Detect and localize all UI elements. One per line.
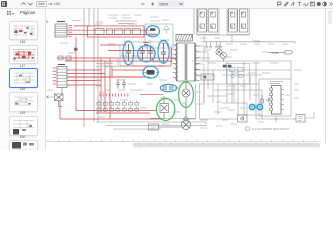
transformer T802 [197, 8, 220, 34]
annotation ellipse (blue) around C810 [123, 41, 134, 65]
label FS801 fuse text [115, 21, 137, 24]
annotation ellipse (blue) around C813/C814 [138, 46, 156, 62]
wire standby primary drop [193, 8, 195, 35]
transistor Q801 (in green mark) [182, 81, 190, 107]
transformer T803 [209, 9, 218, 32]
thermistor TH801 [181, 107, 190, 129]
resistor array R811-R818 [97, 101, 139, 112]
label text rows (top filter area) [96, 15, 299, 128]
diode pair D806 D807 (in blue mark) [163, 86, 173, 90]
diode D801 [75, 48, 78, 52]
capacitor C813 C814 [140, 46, 153, 60]
annotation ellipse (green) around IC803 [157, 98, 175, 120]
IC801 KA5Q box [259, 79, 291, 116]
label component values (left) [47, 21, 301, 125]
transformer T804 [197, 8, 250, 35]
wire P802 return [59, 88, 63, 107]
wire line-filter through (red) [89, 30, 146, 34]
wire primary snubber verticals [102, 45, 171, 66]
diode D810 block [201, 74, 214, 80]
regulator sub-circuit box [227, 63, 250, 84]
wire secondary rail 16V [192, 61, 291, 79]
shunt regulator IC803 KA431 (in green mark) [160, 96, 169, 119]
capacitor C831 [149, 124, 182, 130]
relay RL801 box [145, 24, 173, 48]
svg-text:GAL-A/GCTAPS/PN SMPS CIRCUIT: GAL-A/GCTAPS/PN SMPS CIRCUIT [252, 128, 290, 131]
IC801 KA5Q0765 [270, 82, 284, 115]
capacitor C806 (inside blue mark) [149, 28, 157, 35]
label pin numbers P801 (red) [69, 26, 72, 37]
wire AC live (red highlighted) [67, 26, 157, 111]
label text rows (mid-left) [96, 64, 136, 91]
annotation ellipse (green) around Q801 [179, 82, 194, 108]
resistor row R831 (red ticks) [100, 94, 128, 97]
svg-text:LNB: LNB [272, 51, 278, 55]
IC841 regulator [296, 115, 305, 123]
label C813 value (red) [143, 43, 163, 67]
resistor R821 [261, 95, 269, 110]
wire secondary rail 8V [200, 62, 291, 119]
sidebar panel [0, 9, 46, 151]
capacitor C815 electrolytic [161, 43, 169, 63]
label pin numbers P802 (red) [53, 68, 57, 84]
connector P802 [57, 65, 67, 88]
fuse F802 [47, 94, 64, 101]
connector P801 [55, 22, 67, 38]
schematic canvas [0, 0, 333, 150]
wire ground return bus [96, 118, 206, 129]
inductor LF801 line filter [95, 29, 141, 35]
annotation ellipse (blue) around C815 [158, 40, 169, 63]
viewer toolbar [0, 0, 333, 9]
annotation ring (blue) node B [257, 104, 262, 109]
heatsink hatched block [176, 35, 193, 42]
wire output bottom [268, 112, 314, 122]
wire secondary feedback (red) [60, 95, 163, 119]
label sheet title SMPS CIRCUIT [246, 127, 290, 131]
annotation ellipse (blue) around C806 [146, 26, 159, 37]
wire bias rail (red) [67, 76, 150, 78]
transformer T805 [239, 9, 248, 32]
wire P802 fan-out (red) [62, 58, 110, 119]
wire AC vertical bus N [89, 8, 98, 122]
wire transformer secondary drops [182, 46, 259, 119]
transistor Q802 [216, 44, 222, 55]
diode D841 [238, 115, 248, 122]
node LNB output [268, 51, 293, 55]
annotation ellipse (blue) around C817 [143, 66, 158, 78]
wire snubber top rail [124, 41, 166, 43]
wire AC vertical bus L [83, 8, 85, 127]
annotation ellipse (blue) around D806/D807 [160, 84, 176, 91]
wire rectified DC (red) [57, 45, 176, 77]
transistor Q803 [220, 52, 226, 61]
capacitor C810 [126, 44, 131, 61]
transformer T801 [173, 43, 200, 81]
capacitor C823 C824 [116, 79, 126, 89]
capacitor C802 [58, 56, 71, 60]
vertical scrollbar [328, 10, 333, 24]
wire sense (red vertical) [171, 48, 173, 62]
wire standby output rail [202, 35, 296, 48]
annotation ring (blue) node A [250, 104, 255, 109]
capacitor C817 (dark body) [144, 70, 160, 75]
pad terminals [223, 65, 232, 68]
